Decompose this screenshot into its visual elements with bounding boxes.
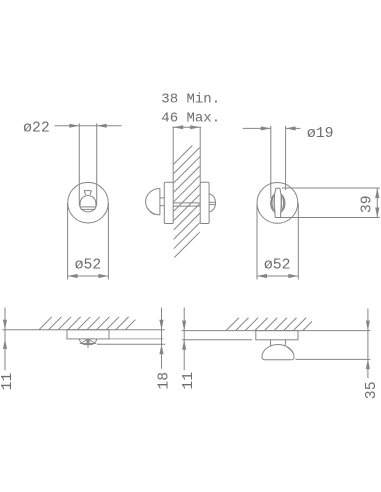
knob neck upper line (160, 197, 164, 199)
svg-text:ø52: ø52 (264, 258, 291, 274)
18 lower arrow (points up) (159, 344, 163, 354)
ø52 right extension line (107, 203, 109, 280)
release button bump (view 3) (79, 339, 97, 345)
svg-text:18: 18 (157, 372, 173, 390)
door section hatching (173, 52, 286, 259)
svg-text:ø52: ø52 (75, 258, 102, 274)
door left face line (172, 127, 174, 182)
svg-text:46 Max.: 46 Max. (161, 110, 220, 126)
svg-text:ø22: ø22 (23, 120, 50, 136)
thumb turn right wing outline (281, 194, 285, 212)
thumb turn right wing flute 1 (282, 196, 284, 210)
svg-text:38 Min.: 38 Min. (161, 91, 220, 107)
right ø52 dimension line (257, 275, 298, 277)
outside rose, section (200, 182, 209, 223)
door thickness dimension line (172, 126, 201, 128)
thumbturn knob dome (side) (146, 189, 160, 215)
ø52 left extension line (67, 203, 69, 280)
thumb turn left wing outline (271, 194, 275, 212)
door face line (view 4) (182, 330, 371, 332)
outside rose profile rectangle (67, 330, 109, 339)
11 lower arrow (view 4) (182, 340, 186, 350)
thumb turn left wing flute 1 (272, 196, 274, 210)
ø52 dimension line (68, 275, 109, 277)
35 upper arrow (points down) (366, 321, 370, 331)
thumb turn central face (274, 188, 281, 217)
door hatching (view 4) (226, 318, 316, 331)
inside rose outline circle Ø52 (257, 183, 298, 224)
ø19 left arrow (points right) (261, 126, 271, 130)
right ø52 left arrow (257, 274, 267, 278)
ø19 dimension line left part (243, 127, 271, 129)
release button bump (side) (209, 194, 215, 212)
knob dome (profile) (262, 345, 294, 360)
svg-text:35: 35 (364, 381, 380, 399)
11 lower arrow (points up) (3, 339, 7, 349)
door right face line (199, 127, 201, 182)
ø19 left extension line (270, 126, 272, 198)
release slot upper (side) (209, 201, 215, 203)
thumb turn right wing flute 2 (282, 198, 285, 207)
ø22 left extension line (78, 123, 80, 203)
svg-text:39: 39 (360, 195, 376, 213)
knob neck right edge (284, 340, 287, 347)
right ø52 left extension line (256, 203, 258, 280)
11 upper arrow (points down) (3, 320, 7, 330)
ø52 left arrow (points left) (68, 274, 78, 278)
knob bottom extension line (296, 358, 371, 360)
rose bottom extension line (109, 338, 164, 340)
knob dome edge highlight (side) (148, 208, 155, 214)
ø19 right arrow (points left) (286, 126, 296, 130)
ø22 left arrow (points right) (69, 124, 79, 128)
right ø52 right extension line (297, 203, 299, 280)
spindle upper line (173, 202, 200, 204)
inside rose, section (164, 182, 173, 223)
door dim right arrow (points right) (190, 125, 200, 129)
knob dome edge highlight (287, 347, 293, 354)
39 top arrow (points up) (375, 188, 379, 198)
39 bottom arrow (points down) (375, 208, 379, 218)
39 dimension line (376, 188, 378, 218)
knob neck left edge (269, 340, 272, 347)
ø22 right arrow (points left) (97, 124, 107, 128)
button bottom extension line (97, 343, 165, 345)
door hatching (view 3) (39, 317, 138, 330)
release button cap (84, 191, 91, 195)
outside rose outline circle Ø52 (68, 182, 109, 223)
release slot wedge left (81, 340, 87, 344)
release slot wedge right (89, 340, 95, 344)
ø19 dimension line right part (286, 127, 301, 129)
release slot centre line (87, 339, 89, 348)
door dim left arrow (points left) (173, 125, 183, 129)
39 bottom leader line (280, 217, 380, 219)
35 lower arrow (points up) (366, 359, 370, 369)
release slot line lower (81, 208, 96, 210)
35 dimension line (367, 309, 369, 379)
svg-text:11: 11 (181, 372, 197, 390)
inside rose profile rectangle (256, 331, 298, 340)
ø22 dimension line (55, 125, 122, 127)
ø19 right extension line (285, 126, 287, 190)
release slot lower (side) (209, 204, 215, 206)
18 dimension line (161, 308, 163, 369)
right ø52 right arrow (288, 274, 298, 278)
rose bottom extension (view 4) (182, 339, 252, 341)
release slot line upper (80, 206, 95, 208)
knob neck lower line (160, 205, 164, 207)
11 dimension line (view 3) (4, 308, 6, 371)
door face line (view 3) (3, 329, 165, 331)
thumb turn left wing flute 2 (271, 198, 274, 207)
39 top leader line (282, 187, 380, 189)
ø22 right extension line (96, 123, 98, 203)
svg-text:ø19: ø19 (307, 126, 334, 142)
svg-text:11: 11 (0, 373, 16, 391)
spindle lower line (173, 205, 200, 207)
18 upper arrow (points down) (159, 320, 163, 330)
release button dome arc (80, 195, 96, 205)
11 upper arrow (view 4) (182, 321, 186, 331)
cylinder hole Ø22 lower arc (79, 203, 96, 212)
ø52 right arrow (points right) (98, 274, 108, 278)
11 dimension line (view 4) (183, 308, 185, 371)
thumbturn knob flat face (159, 189, 161, 215)
